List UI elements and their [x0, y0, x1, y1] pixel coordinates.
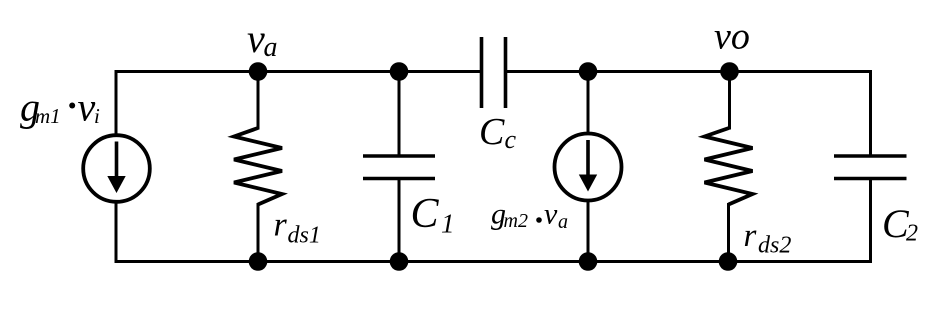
label Cc — [479, 111, 517, 154]
wire top rail right of Cc — [506, 70, 873, 73]
svg-text:a: a — [264, 32, 278, 63]
node gm2-top dot — [579, 62, 598, 81]
node dot bottom under rds2 — [719, 252, 738, 271]
capacitor C1 — [363, 72, 435, 262]
wire top rail left of Cc — [115, 70, 482, 73]
svg-text:v: v — [544, 198, 558, 231]
svg-text:C: C — [479, 111, 505, 153]
node dot bottom under C1 — [390, 252, 409, 271]
node dot bottom under rds1 — [249, 252, 268, 271]
label C1 — [411, 191, 455, 239]
label vo — [714, 16, 750, 58]
label C2 — [882, 201, 918, 247]
svg-text:r: r — [274, 207, 288, 244]
svg-text:2: 2 — [906, 221, 918, 247]
node C1-top dot — [390, 62, 409, 81]
node va dot — [249, 62, 268, 81]
wire left vertical upper — [115, 70, 118, 135]
capacitor Cc — [482, 37, 506, 108]
wire left vertical lower — [115, 201, 118, 263]
svg-text:m2: m2 — [504, 210, 528, 232]
svg-text:v: v — [78, 85, 96, 130]
svg-text:c: c — [505, 125, 517, 154]
svg-text:ds1: ds1 — [288, 223, 321, 249]
label rds1 — [274, 207, 321, 249]
current source U1 gm1·vi — [83, 135, 150, 202]
svg-text:C: C — [411, 191, 440, 237]
svg-text:m1: m1 — [35, 104, 61, 128]
label rds2 — [744, 218, 792, 259]
label gm1·vi — [20, 85, 100, 130]
resistor rds1 — [234, 72, 282, 262]
svg-text:vo: vo — [714, 16, 750, 58]
svg-text:v: v — [247, 16, 265, 61]
label gm2·va — [491, 198, 568, 234]
svg-text:ds2: ds2 — [758, 233, 791, 259]
svg-text:1: 1 — [441, 209, 455, 239]
wire bottom rail — [115, 260, 873, 263]
svg-text:r: r — [744, 218, 757, 254]
capacitor C2 — [834, 70, 907, 263]
svg-text:i: i — [94, 104, 100, 128]
node dot bottom under gm2 — [579, 252, 598, 271]
resistor rds2 — [705, 72, 753, 262]
current source U2 gm2·va — [555, 72, 622, 262]
node vo dot — [720, 62, 739, 81]
label va — [247, 16, 278, 63]
svg-text:a: a — [558, 211, 568, 233]
